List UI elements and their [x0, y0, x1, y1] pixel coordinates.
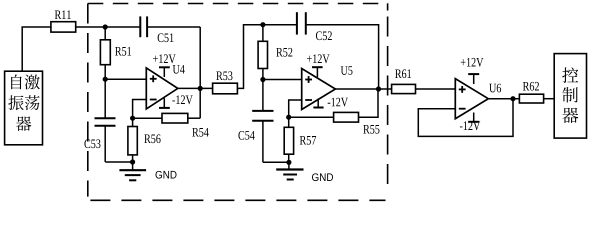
- ground GND (stage 2): [276, 162, 333, 181]
- block: controller (控制器): [554, 54, 586, 139]
- wire node B to U4 + input: [105, 78, 146, 80]
- wire C53 bottom to ground node: [105, 161, 132, 163]
- node F junction (top rail/R52): [260, 22, 265, 27]
- wire R11 to node A: [76, 26, 141, 28]
- block: self-excited oscillator (自激振荡器): [5, 71, 43, 145]
- capacitor C53: [84, 79, 115, 162]
- node G junction (R52/C54/U5+): [260, 77, 265, 82]
- wire oscillator output up to R11: [22, 27, 51, 71]
- resistor R57: [284, 117, 316, 162]
- wire node G to U5 + input: [263, 79, 302, 81]
- wire C52 to U5 output (feedback top): [306, 25, 379, 89]
- U4 +12V supply pin: [153, 54, 176, 77]
- U6 -12V supply pin: [460, 113, 480, 131]
- resistor R11: [51, 10, 76, 32]
- node A junction (R11/R51/C51): [103, 24, 108, 29]
- resistor R61: [392, 69, 416, 93]
- node E junction (U4 out/C51/R54/R53): [198, 86, 203, 91]
- wire C54 bottom to ground node: [263, 161, 289, 163]
- op-amp U6: [455, 79, 501, 119]
- U5 +12V supply pin: [307, 54, 330, 77]
- resistor R55: [289, 89, 380, 134]
- op-amp U4: [146, 65, 184, 109]
- wire U5 inverting input: [289, 100, 302, 117]
- node B junction (R51/C53/U4+): [103, 77, 108, 82]
- resistor R62: [519, 82, 543, 103]
- wire vertical U4 output/feedback: [199, 27, 201, 118]
- capacitor C52: [297, 12, 332, 40]
- wire U6 output: [488, 98, 519, 100]
- op-amp U5: [302, 66, 353, 109]
- wire U4 output: [178, 87, 213, 89]
- node D junction (R56/C53/GND): [130, 159, 135, 164]
- resistor R54: [133, 113, 209, 136]
- resistor R51: [100, 27, 131, 79]
- wire U5 output: [335, 88, 391, 90]
- wire C51 to U4 output (feedback top): [147, 26, 200, 28]
- node I junction (R57/C54/GND): [286, 160, 291, 165]
- U5 -12V supply pin: [313, 98, 348, 108]
- resistor R52: [258, 25, 292, 80]
- ground GND (stage 1): [119, 162, 176, 180]
- U4 -12V supply pin: [159, 95, 193, 108]
- node J junction (U5 out/C52/R55/R61): [376, 86, 381, 91]
- wire R61 to U6 + input: [416, 88, 456, 90]
- capacitor C51: [140, 16, 173, 42]
- resistor R53: [213, 71, 238, 93]
- dashed enclosure (filter block): [88, 4, 388, 201]
- node K junction (U6 out/feedback/R62): [510, 96, 515, 101]
- wire R62 to controller: [544, 98, 555, 100]
- U6 +12V supply pin: [461, 58, 484, 84]
- wire U6 feedback loop (inverting input to output): [418, 99, 513, 137]
- node H junction (U5-/R55/R57): [286, 115, 291, 120]
- capacitor C54: [238, 80, 273, 163]
- resistor R56: [128, 118, 161, 162]
- node C junction (U4-/R54/R56): [130, 116, 135, 121]
- wire R53 to stage-2 top rail: [237, 25, 297, 89]
- wire U4 inverting input: [133, 100, 147, 119]
